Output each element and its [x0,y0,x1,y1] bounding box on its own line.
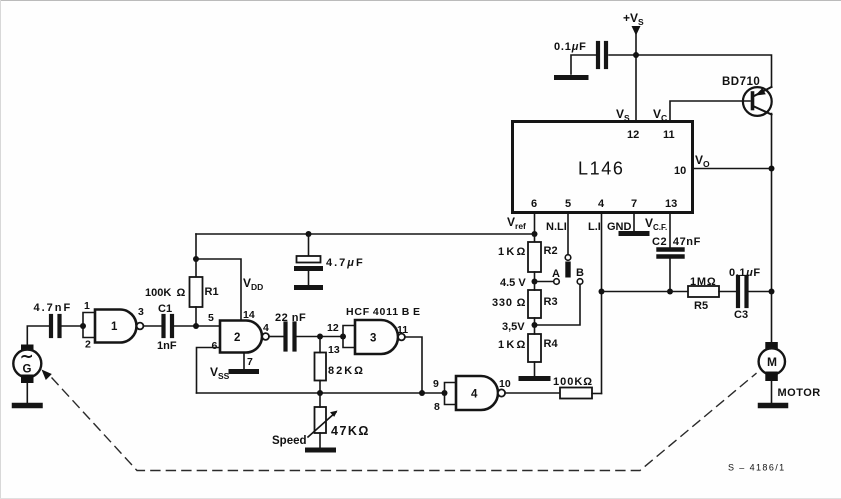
svg-text:4: 4 [471,389,478,401]
wire R4 leads [534,325,536,334]
nand gate U2C (3) [355,320,398,354]
svg-text:0.1μF: 0.1μF [729,267,761,279]
svg-text:G: G [23,364,32,376]
svg-text:1: 1 [111,321,118,333]
wire C1 to pin5 junction [174,325,220,327]
svg-text:82KΩ: 82KΩ [328,365,365,377]
svg-text:Speed: Speed [272,435,307,447]
wire +Vs vertical to pin 12 [635,31,637,122]
ground below 4.7uF [297,285,321,290]
node junction Vref [532,231,538,237]
svg-text:6: 6 [212,340,218,352]
wire R2 bottom lead [534,272,536,282]
wire +Vs rail to emitter [636,55,772,87]
page edge tint bottom [0,498,841,499]
svg-text:1MΩ: 1MΩ [690,276,717,288]
svg-text:8: 8 [434,401,440,413]
svg-text:1KΩ: 1KΩ [498,246,527,258]
wire pin 10 Vo [693,168,772,170]
capacitor 22nF plates [283,324,287,350]
gate 3 output bubble [398,334,405,341]
svg-text:47KΩ: 47KΩ [331,424,370,438]
wire 22nF to gate3 input [297,336,344,338]
node junction Vo [769,166,775,172]
svg-text:A: A [552,268,560,280]
terminal A [554,279,560,285]
wire to VDD column [196,259,241,321]
wire Vref rail [196,233,535,235]
page edge tint left [0,0,2,499]
svg-text:7: 7 [247,356,253,368]
wire to terminal A [535,281,554,283]
ground below motor [761,403,786,409]
node +Vs supply label [623,11,644,27]
wire pin 6 Vref stub [534,213,536,235]
wire capacitor C4 left lead [571,55,596,74]
svg-text:R3: R3 [544,296,558,308]
svg-text:4.7nF: 4.7nF [34,302,73,314]
wire capacitor C4 right lead [609,54,636,56]
svg-text:BD710: BD710 [722,76,760,88]
resistor R4 [528,334,541,362]
gate 2 output bubble [262,333,269,340]
node junction 3.5V [532,322,538,328]
wire 82K leads [319,337,321,353]
capacitor C4 0.1uF plates [596,43,600,67]
svg-text:12: 12 [627,129,639,141]
svg-text:4.7μF: 4.7μF [326,257,365,269]
wire motor to ground [771,381,773,403]
svg-text:C2 47nF: C2 47nF [652,236,701,248]
svg-text:11: 11 [397,324,408,336]
wire base from pin 11 [670,101,750,122]
svg-text:22 nF: 22 nF [275,312,306,324]
svg-text:3,5V: 3,5V [502,321,525,333]
dashed feedback link motor to generator [52,374,756,471]
nand gate U2D (4) [456,376,498,410]
svg-text:100K Ω: 100K Ω [145,287,186,299]
node junction R1/pin5 [193,323,199,329]
svg-text:7: 7 [631,198,637,210]
svg-text:1nF: 1nF [157,340,177,352]
svg-text:1KΩ: 1KΩ [498,339,527,351]
wire gate4 out to 100K [505,392,560,394]
wire pin 6 feedback drop [197,348,221,394]
node junction 82K tap [317,334,323,340]
wire gate3 input split [343,326,355,348]
svg-text:R5: R5 [694,300,708,312]
svg-text:100KΩ: 100KΩ [553,376,593,388]
node junction R1/VDD [193,256,199,262]
wire R3 leads [534,282,536,291]
svg-text:HCF 4011 B E: HCF 4011 B E [346,306,421,318]
wire R1 top lead [195,259,197,277]
capacitor C1 plates [161,316,165,336]
wire C3 right lead [749,291,772,293]
svg-text:L.I: L.I [588,221,601,233]
ground below generator [15,403,41,409]
svg-text:2: 2 [234,332,240,344]
wire gate2 out to 22nF [269,336,283,338]
wire R5 to C3 [719,291,736,293]
node junction gate3 drop [419,390,425,396]
svg-text:3: 3 [370,333,376,345]
svg-text:B: B [576,267,584,279]
jumper plug on N.LI [565,255,571,278]
dashed link arrowhead at generator [42,370,52,381]
resistor R3 [528,290,541,318]
wire pin 13 to C2 [669,213,671,248]
node junction L.I tap [599,289,605,295]
resistor R5 [688,286,719,297]
svg-text:S – 4186/1: S – 4186/1 [728,463,786,473]
ground GND pin 7 [621,231,647,236]
svg-text:10: 10 [499,378,511,390]
svg-text:0.1μF: 0.1μF [554,41,587,53]
wire pin 5 N.LI stub [567,213,569,255]
wire pin 7 GND stub [633,213,635,232]
svg-text:4: 4 [598,198,605,210]
wire generator to ground [26,383,28,403]
svg-text:12: 12 [327,322,339,334]
svg-text:N.LI: N.LI [546,221,567,233]
svg-text:11: 11 [663,129,675,141]
node junction gate4 input [442,390,448,396]
svg-text:R1: R1 [205,286,219,298]
wire R2 top lead [534,234,536,242]
potentiometer 47K [315,407,327,433]
wire pin 4 L.I column [601,213,603,394]
node junction C2/R5 [667,289,673,295]
gate 4 output bubble [498,389,505,396]
nand gate U2A (1) [95,310,137,343]
node junction 4.5V [532,279,538,285]
ground below R4 [521,376,548,381]
gate 1 output bubble [137,323,144,330]
capacitor C2 47nF plates [659,247,683,251]
page edge tint top [0,0,841,2]
svg-text:1: 1 [84,300,90,312]
resistor R1 [190,277,203,307]
svg-text:13: 13 [328,344,340,356]
wire 100K to L.I column [592,393,602,395]
ground Vss [231,369,257,374]
wire to motor [771,292,773,344]
svg-text:C1: C1 [158,303,172,315]
wire 4.7uF top lead [308,234,310,256]
resistor R2 [528,242,541,272]
wire Vref rail left drop [195,234,197,259]
svg-text:R2: R2 [544,245,558,257]
terminal B [577,279,583,285]
op-amp U1 L146 package outline [513,122,693,213]
svg-text:4: 4 [263,322,269,334]
node junction C3/motor [769,289,775,295]
wire gate3 out down to rail [405,337,422,393]
potentiometer arrow [308,411,338,438]
svg-text:13: 13 [665,198,677,210]
node junction gate3 input [340,334,346,340]
generator G1 [13,345,41,384]
wire 4.7nF to gate 1 inputs [62,325,84,327]
transistor Q1 BD710 [743,87,772,116]
capacitor C5 4.7uF electrolytic [297,256,321,269]
svg-text:6: 6 [531,198,537,210]
capacitor 4.7nF plates [49,316,53,336]
wire feedback rail [197,392,445,394]
svg-text:14: 14 [243,309,255,321]
wire generator top lead [27,326,49,345]
node junction 47K tap [317,390,323,396]
wire gate1 out to C1 [143,325,162,327]
motor M1 [759,342,785,381]
svg-text:5: 5 [208,312,214,324]
svg-text:330 Ω: 330 Ω [492,297,526,309]
svg-text:M: M [767,355,777,369]
wire gate1 input split [83,313,95,338]
+Vs down-arrow terminal [632,26,641,36]
svg-text:2: 2 [85,339,91,351]
capacitor C3 plates [736,277,740,306]
wire terminal B to 3.5V node [535,285,581,326]
svg-text:4.5 V: 4.5 V [500,277,526,289]
wire tap to R5 [602,291,689,293]
ground below 47K [308,448,334,453]
svg-text:5: 5 [565,198,571,210]
resistor 82K [315,353,327,381]
wire R1 bottom lead [195,307,197,326]
svg-text:L146: L146 [578,159,624,179]
node junction 4.7uF tap [306,231,312,237]
wire pin 7 to Vss ground [243,353,245,370]
wire gate4 input split [445,383,457,405]
resistor 100K [560,388,592,399]
node junction +Vs rail [633,52,639,58]
svg-text:3: 3 [138,306,144,318]
svg-text:10: 10 [674,165,686,177]
wire 47K leads [319,393,321,407]
node junction gate1 input [80,323,86,329]
ground below C4 [557,75,587,80]
svg-text:9: 9 [433,378,439,390]
wire C2 bottom lead [669,259,671,292]
svg-text:C3: C3 [734,309,748,321]
wire 4.7uF bottom lead [308,271,310,285]
wire collector down [771,114,773,292]
nand gate U2B (2) [220,321,262,353]
svg-text:R4: R4 [544,338,559,350]
svg-text:MOTOR: MOTOR [778,387,821,399]
